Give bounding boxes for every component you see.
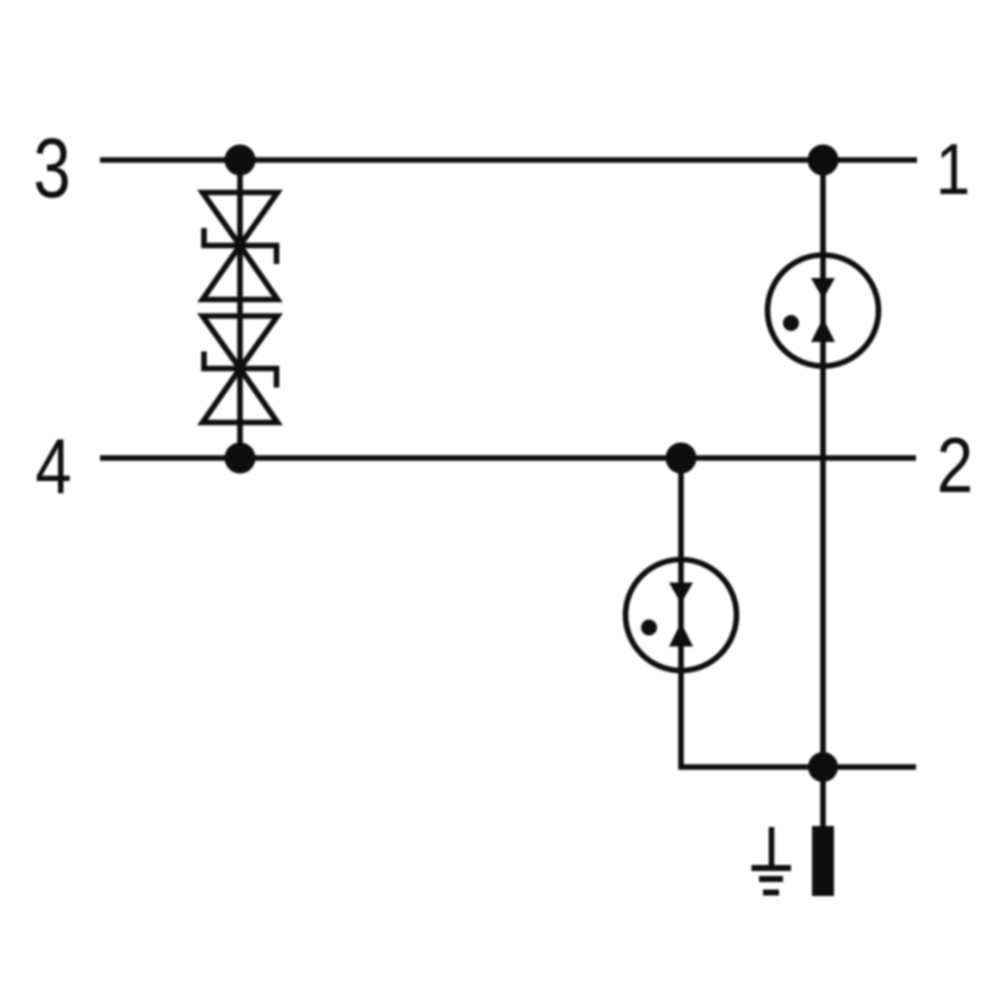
wire W5: vertical wire x=681 from node on line 2 down through GDT F2 bbox=[678, 458, 684, 770]
junction node J1 at (240,160) bbox=[225, 145, 256, 176]
terminal label 3 bbox=[33, 122, 70, 216]
gas discharge tube F1 (circle, right branch) bbox=[768, 255, 879, 366]
wire W4: right vertical wire x=823 from node 1 down to bottom node bbox=[820, 160, 826, 767]
junction node J5 at (823,767) bbox=[808, 752, 838, 782]
ground symbol (earth) bbox=[752, 827, 792, 893]
PE terminal block (solid bar) bbox=[812, 826, 834, 896]
wire W7: ground lead from bottom node to PE terminal block bbox=[820, 767, 826, 830]
suppressor diode D2 (bidirectional TVS, lower) bbox=[203, 316, 278, 423]
wire W3: net 4-2 horizontal line bbox=[100, 455, 916, 461]
terminal label 2 bbox=[937, 423, 973, 510]
junction node J2 at (823,160) bbox=[808, 145, 839, 176]
svg-text:2: 2 bbox=[937, 423, 973, 510]
gas discharge tube F2 (circle, middle branch) bbox=[626, 560, 737, 671]
terminal label 4 bbox=[35, 424, 71, 511]
terminal label 1 bbox=[936, 130, 970, 210]
svg-text:4: 4 bbox=[35, 424, 71, 511]
junction node J3 at (240,458) bbox=[225, 443, 256, 474]
wire W6: bottom horizontal wire y=767 bbox=[679, 764, 917, 770]
junction node J4 at (681,458) bbox=[666, 443, 697, 474]
wire W1: net 3-1 top horizontal line bbox=[100, 157, 917, 163]
svg-text:1: 1 bbox=[936, 130, 970, 210]
suppressor diode D1 (bidirectional TVS, upper) bbox=[203, 193, 278, 300]
wire W2: vertical wire x=240 through suppressor chain (net 3 to net 4) bbox=[237, 160, 243, 458]
svg-text:3: 3 bbox=[33, 122, 70, 216]
